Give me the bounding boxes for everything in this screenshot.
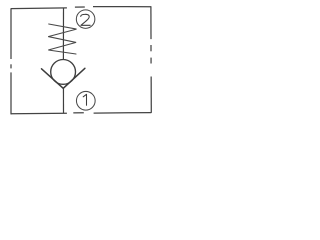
- envelope left border lower dash: [10, 72, 12, 114]
- port 1 label circle: [76, 91, 95, 110]
- port 2 label text: [81, 14, 91, 25]
- envelope top border right dash: [93, 6, 151, 8]
- envelope bottom border left dash: [11, 112, 67, 114]
- check ball: [51, 60, 76, 85]
- wire port 2 line: [62, 8, 64, 60]
- wire port 1 line: [62, 88, 64, 113]
- spring: [48, 24, 76, 54]
- envelope bottom border right dash: [94, 112, 152, 114]
- port 2 label circle: [76, 10, 95, 29]
- port 1 label text: [83, 94, 86, 105]
- envelope bottom border middle dash: [73, 112, 84, 114]
- valve seat: [42, 68, 85, 88]
- envelope top border middle dash: [75, 6, 85, 8]
- envelope left border upper dash: [10, 8, 12, 59]
- envelope right border third dash: [150, 58, 152, 64]
- envelope left border middle dot: [10, 64, 12, 68]
- envelope right border second dash: [150, 45, 152, 51]
- envelope top border left dash: [11, 7, 67, 10]
- envelope right border upper dash: [150, 6, 152, 39]
- envelope right border lower dash: [150, 77, 152, 113]
